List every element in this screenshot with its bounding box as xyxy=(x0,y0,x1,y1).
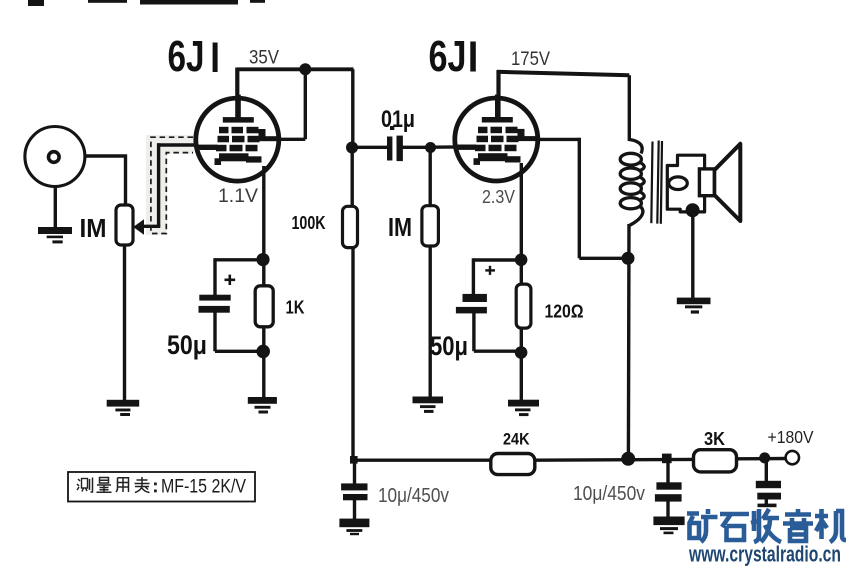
svg-text:MF-15 2K/V: MF-15 2K/V xyxy=(161,477,246,498)
svg-text:01μ: 01μ xyxy=(381,106,415,133)
svg-text:6J: 6J xyxy=(429,32,467,81)
svg-text:6J: 6J xyxy=(168,32,205,81)
svg-text:10μ/450v: 10μ/450v xyxy=(378,485,449,507)
svg-text:+180V: +180V xyxy=(768,427,814,447)
svg-text:www.crystalradio.cn: www.crystalradio.cn xyxy=(688,542,841,567)
svg-text:50μ: 50μ xyxy=(167,330,207,360)
svg-text:120Ω: 120Ω xyxy=(545,302,584,322)
svg-text:1K: 1K xyxy=(286,298,305,318)
svg-text:10μ/450v: 10μ/450v xyxy=(573,483,645,505)
svg-text:100K: 100K xyxy=(292,213,326,233)
svg-text:2.3V: 2.3V xyxy=(482,187,515,207)
svg-text:1.1V: 1.1V xyxy=(218,186,258,207)
svg-text:IM: IM xyxy=(388,212,412,242)
svg-text:24K: 24K xyxy=(503,430,530,449)
svg-text:IM: IM xyxy=(80,213,107,243)
svg-text:175V: 175V xyxy=(511,48,550,70)
svg-text:35V: 35V xyxy=(249,47,279,69)
svg-text:50μ: 50μ xyxy=(430,331,468,361)
svg-text:3K: 3K xyxy=(704,428,726,449)
